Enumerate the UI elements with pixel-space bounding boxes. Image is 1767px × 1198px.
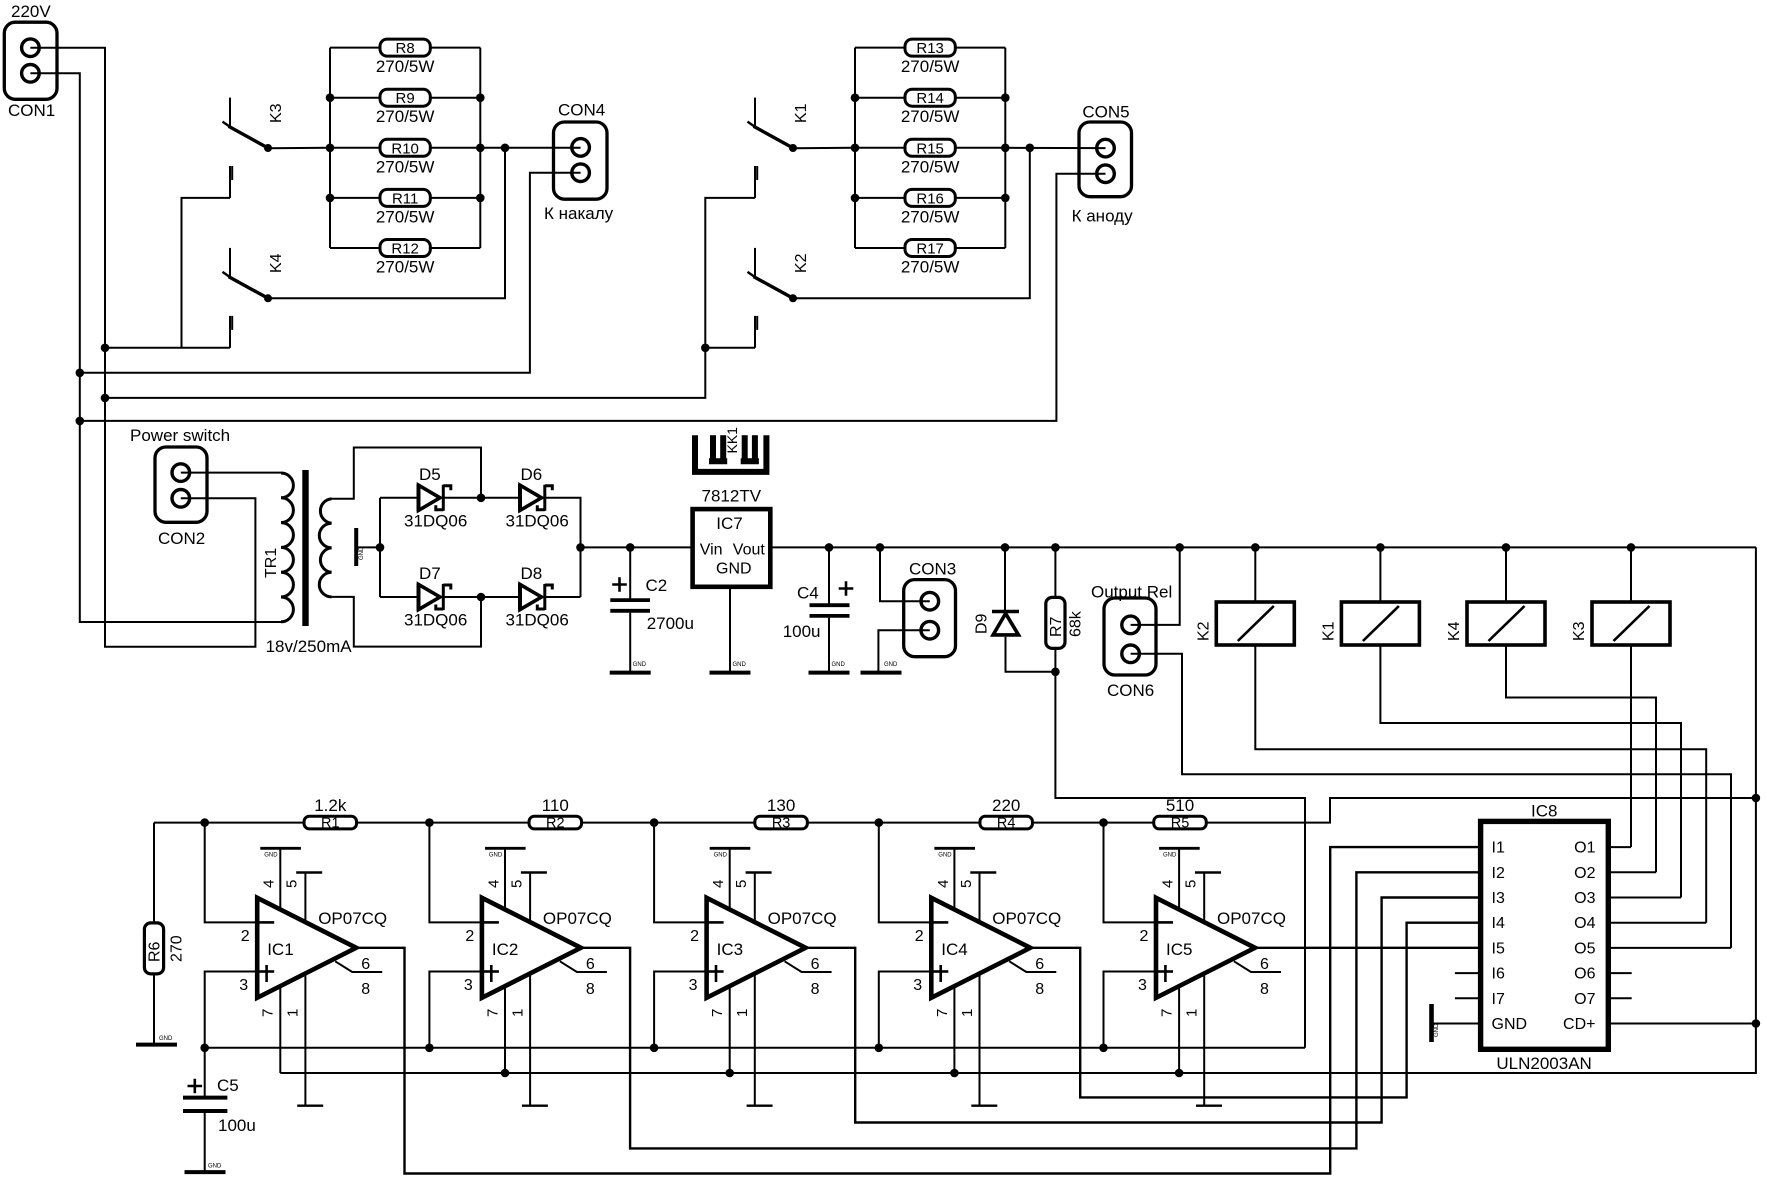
svg-text:R11: R11	[392, 190, 418, 207]
svg-text:Vin: Vin	[700, 542, 723, 559]
svg-text:GND: GND	[884, 662, 898, 668]
IC8 O5 to CON6	[1608, 947, 1731, 949]
svg-text:5: 5	[958, 880, 975, 888]
svg-text:7812TV: 7812TV	[702, 487, 762, 506]
IC3 pin1 end bar	[747, 1104, 773, 1106]
wire C5 top lead	[204, 1048, 206, 1096]
svg-text:Power switch: Power switch	[130, 426, 230, 445]
svg-text:8: 8	[361, 981, 370, 998]
junction ladder tap IC1	[200, 818, 209, 827]
resistor R8	[380, 39, 430, 56]
resistor R15	[905, 139, 955, 156]
svg-text:6: 6	[586, 956, 595, 973]
wire R7 bottom lead	[1054, 648, 1056, 671]
svg-text:7: 7	[1159, 1009, 1176, 1017]
wire IC3 output to I3	[806, 898, 1481, 1123]
diode D6 31DQ06	[520, 484, 552, 511]
resistor R3	[755, 816, 808, 829]
junction ramp bus IC5	[1099, 1044, 1108, 1053]
wire mains live to right bank	[105, 198, 755, 398]
CON6 pin 1	[1122, 616, 1140, 634]
svg-text:110: 110	[542, 796, 569, 815]
wire IC2 output to I2	[581, 872, 1481, 1148]
ground symbol at bridge minus	[354, 528, 358, 566]
svg-text:R1: R1	[321, 816, 340, 832]
junction V+ bus pin7	[725, 1069, 734, 1078]
junction relay K4 coil feed	[1502, 543, 1511, 552]
svg-text:GND: GND	[633, 662, 647, 668]
junction bridge minus node	[376, 543, 385, 552]
wire V+ bus pin7	[280, 1024, 1756, 1074]
svg-text:4: 4	[261, 880, 278, 888]
wire bridge minus node vertical	[379, 498, 381, 597]
wire left bank right bus	[479, 48, 481, 248]
wire IC4 pin3 to ramp bus	[879, 972, 930, 1048]
wire R8 right lead	[430, 47, 480, 49]
junction left bank left bus	[326, 194, 335, 203]
wire IC4 output to I4	[1030, 923, 1480, 1098]
relay coil K1	[1341, 602, 1419, 645]
wire CON3 pin1	[880, 547, 930, 601]
svg-text:R4: R4	[997, 816, 1016, 832]
svg-text:D8: D8	[521, 564, 543, 583]
IC5 pin 2 inverting tick	[1158, 921, 1173, 924]
svg-text:7: 7	[260, 1009, 277, 1017]
wire R11 right lead	[430, 197, 480, 199]
junction mains neutral / CON5 return	[76, 417, 85, 426]
IC8 O3 to relay K1	[1608, 897, 1681, 899]
junction CON3 feed	[876, 543, 885, 552]
IC8 O1 to relay K3	[1608, 846, 1631, 848]
junction K2/CON5 node	[1026, 144, 1035, 153]
wire IC4 pin4	[953, 848, 955, 910]
svg-text:OP07CQ: OP07CQ	[768, 909, 837, 928]
wire IC3 pin7	[729, 985, 731, 1073]
capacitor C2 plates	[610, 600, 650, 611]
svg-text:D7: D7	[419, 564, 441, 583]
wire IC2 pin3 to ramp bus	[429, 972, 480, 1048]
svg-text:6: 6	[361, 956, 370, 973]
svg-text:O6: O6	[1574, 966, 1595, 983]
resistor R5	[1154, 816, 1207, 829]
voltage regulator IC7 box	[693, 509, 771, 587]
relay coil K2	[1216, 602, 1294, 645]
IC4 pin1 end bar	[971, 1104, 997, 1106]
junction R7 top	[1051, 543, 1060, 552]
junction right bank right bus	[1001, 194, 1010, 203]
svg-text:220: 220	[992, 796, 1020, 815]
IC3 plus mark	[715, 965, 718, 982]
wire K3 blade to left bus	[268, 147, 330, 149]
wire ramp node to comparator bus	[1055, 672, 1305, 1048]
svg-text:2: 2	[465, 928, 474, 945]
wire R16 right lead	[955, 197, 1005, 199]
connector CON1	[4, 22, 57, 99]
svg-text:4: 4	[1160, 880, 1177, 888]
relay coil K3	[1592, 602, 1670, 645]
svg-text:270/5W: 270/5W	[376, 207, 435, 226]
svg-text:2: 2	[690, 928, 699, 945]
svg-text:D6: D6	[521, 465, 543, 484]
wire IC1 pin4	[279, 848, 281, 910]
wire R14 right lead	[955, 97, 1005, 99]
svg-text:7: 7	[484, 1009, 501, 1017]
wire C2 top lead	[629, 547, 631, 599]
svg-text:270/5W: 270/5W	[376, 57, 435, 76]
svg-text:31DQ06: 31DQ06	[404, 611, 467, 630]
K4 lower contact stub	[230, 316, 232, 348]
junction ramp bus IC4	[875, 1044, 884, 1053]
junction CON6 feed	[1175, 543, 1184, 552]
IC2 plus mark	[490, 965, 493, 982]
junction right bank right bus	[1001, 93, 1010, 102]
svg-text:GND: GND	[1163, 853, 1177, 859]
junction left bank left bus	[326, 144, 335, 153]
svg-text:OP07CQ: OP07CQ	[318, 909, 387, 928]
svg-text:68k: 68k	[1068, 610, 1085, 637]
IC4 plus mark	[939, 965, 942, 982]
junction left bank left bus	[326, 93, 335, 102]
IC3 pin 2 inverting tick	[709, 921, 724, 924]
wire relay K3 coil to O1	[1630, 645, 1632, 847]
junction R7/D9 node	[1051, 668, 1060, 677]
IC8 GND pin wire	[1433, 1023, 1481, 1025]
ground IC7	[710, 671, 751, 675]
wire D9 cathode lead	[1004, 547, 1006, 610]
IC1 plus mark	[265, 965, 268, 982]
wire K3 stub to feed riser	[182, 198, 231, 348]
resistor R1	[304, 816, 357, 829]
wire R6 bottom lead	[153, 974, 155, 1043]
resistor R7	[1046, 597, 1065, 648]
relay contact K3	[223, 98, 273, 152]
wire neutral to CON4 pin2	[80, 173, 581, 373]
junction ramp bus IC1	[200, 1044, 209, 1053]
svg-text:270/5W: 270/5W	[376, 157, 435, 176]
svg-text:4: 4	[935, 880, 952, 888]
wire K2 blade to CON5 node	[793, 148, 1030, 298]
wire mains feed to K bank	[105, 347, 230, 349]
junction bridge AC1 node	[477, 494, 486, 503]
resistor R6	[144, 923, 163, 974]
svg-text:R3: R3	[772, 816, 791, 832]
svg-text:270/5W: 270/5W	[901, 207, 960, 226]
op-amp IC2 triangle	[482, 898, 581, 998]
svg-text:GND: GND	[733, 662, 747, 668]
svg-text:IC8: IC8	[1531, 802, 1557, 821]
wire bridge output to IC7 Vin	[581, 546, 693, 548]
svg-text:GND: GND	[1434, 1023, 1440, 1037]
svg-text:5: 5	[733, 880, 750, 888]
svg-text:Vout: Vout	[733, 542, 766, 559]
svg-text:6: 6	[1035, 956, 1044, 973]
wire IC2 pin1	[529, 973, 531, 1105]
svg-text:O1: O1	[1574, 840, 1595, 857]
wire IC3 pin2 to ladder tap	[654, 823, 705, 923]
svg-text:1: 1	[959, 1009, 976, 1017]
svg-text:2: 2	[915, 928, 924, 945]
svg-text:GND: GND	[264, 853, 278, 859]
svg-text:GND: GND	[716, 561, 752, 578]
svg-text:8: 8	[586, 981, 595, 998]
wire R13 left lead	[855, 47, 905, 49]
junction K4/CON4 node	[501, 144, 510, 153]
svg-text:K4: K4	[1446, 621, 1463, 641]
wire IC1 pin2 to ladder tap	[205, 823, 256, 923]
svg-text:5: 5	[1183, 880, 1200, 888]
ground bar IC4 pin4	[934, 847, 975, 850]
ground bar IC2 pin4	[485, 847, 526, 850]
svg-text:R12: R12	[391, 241, 419, 258]
K1 lower contact stub	[755, 166, 757, 198]
wire secondary bottom to bridge AC2	[332, 597, 481, 647]
junction relay K2 coil feed	[1251, 543, 1260, 552]
svg-text:1: 1	[1184, 1009, 1201, 1017]
junction bridge AC2 node	[477, 593, 486, 602]
svg-text:8: 8	[1260, 981, 1269, 998]
svg-text:GND: GND	[714, 853, 728, 859]
svg-text:R13: R13	[916, 40, 944, 57]
svg-text:2700u: 2700u	[647, 614, 694, 633]
wire ladder segment after R2	[582, 822, 755, 824]
relay coil K4	[1467, 602, 1545, 645]
wire C2 bottom lead	[629, 613, 631, 671]
wire ladder segment after R3	[807, 822, 980, 824]
svg-text:R15: R15	[916, 140, 944, 157]
svg-text:5: 5	[508, 880, 525, 888]
wire K1 blade to left bus	[793, 147, 855, 149]
wire CON3 pin2 to ground	[878, 630, 929, 671]
svg-text:270/5W: 270/5W	[901, 57, 960, 76]
svg-text:8: 8	[811, 981, 820, 998]
IC8 pin I7 stub	[1455, 997, 1481, 999]
IC5 pin1 end bar	[1196, 1104, 1222, 1106]
CON2 pin 2	[172, 490, 190, 508]
IC3 pin5 end bar	[746, 871, 772, 873]
IC4 pin8 stub	[1009, 961, 1056, 972]
wire K4 blade to CON4 node	[268, 148, 505, 298]
svg-text:5: 5	[284, 880, 301, 888]
wire bank to CON5 pin1	[1005, 147, 1105, 149]
connector CON4	[554, 122, 608, 199]
ground bar IC5 pin4	[1159, 847, 1200, 850]
wire neutral to CON5 pin2	[80, 174, 1106, 421]
svg-text:270/5W: 270/5W	[901, 157, 960, 176]
svg-text:I6: I6	[1492, 966, 1505, 983]
wire IC1 pin1	[304, 973, 306, 1105]
wire IC4 pin5	[979, 873, 981, 923]
connector CON3	[904, 580, 956, 657]
svg-text:K1: K1	[1320, 621, 1337, 641]
wire IC3 pin1	[754, 973, 756, 1105]
svg-text:I1: I1	[1492, 840, 1505, 857]
IC4 pin5 end bar	[970, 871, 996, 873]
IC8 O2 to relay K4	[1608, 871, 1656, 873]
svg-text:IC1: IC1	[267, 940, 293, 959]
IC5 plus mark	[1164, 965, 1167, 982]
wire R13 right lead	[955, 47, 1005, 49]
wire R5 to +12V	[1206, 798, 1756, 823]
svg-text:4: 4	[710, 880, 727, 888]
wire R14 left lead	[855, 97, 905, 99]
svg-text:100u: 100u	[783, 622, 821, 641]
svg-text:IC7: IC7	[716, 514, 742, 533]
ground C5	[185, 1170, 226, 1174]
wire ramp bus pin3	[205, 1047, 1305, 1049]
IC1 pin 2 inverting tick	[259, 921, 274, 924]
svg-text:C2: C2	[646, 576, 668, 595]
svg-text:3: 3	[1138, 977, 1147, 994]
IC2 pin 3 tick	[484, 970, 499, 973]
IC8 pin I6 stub	[1455, 972, 1481, 974]
IC8 O4 to relay K2	[1608, 922, 1706, 924]
wire right bank feed to K2	[705, 347, 755, 349]
svg-text:CON2: CON2	[158, 529, 205, 548]
ground bar IC3 pin4	[710, 847, 751, 850]
wire AC2 to D8 anode	[481, 596, 520, 598]
diode D9	[992, 612, 1019, 635]
svg-text:31DQ06: 31DQ06	[506, 512, 569, 531]
svg-text:D9: D9	[974, 613, 991, 634]
diode D7 31DQ06	[419, 584, 451, 611]
wire relay K2 coil top	[1254, 547, 1256, 602]
CON1 pin 1	[22, 39, 40, 57]
IC2 pin5 end bar	[521, 871, 547, 873]
wire IC3 pin5	[754, 873, 756, 923]
junction C2 top	[626, 543, 635, 552]
IC1 pin5 end bar	[296, 871, 322, 873]
op-amp IC3 triangle	[707, 898, 806, 998]
svg-text:GND: GND	[489, 853, 503, 859]
svg-text:R14: R14	[916, 90, 944, 107]
ground C4	[809, 671, 850, 675]
svg-text:1.2k: 1.2k	[314, 796, 347, 815]
svg-text:18v/250mA: 18v/250mA	[266, 637, 353, 656]
svg-text:KK1: KK1	[724, 427, 740, 454]
ground bar IC1 pin4	[260, 847, 301, 850]
junction ladder tap IC2	[425, 818, 434, 827]
resistor R17	[905, 240, 955, 257]
wire R10 left lead	[330, 147, 380, 149]
wire C5 bottom lead	[204, 1113, 206, 1171]
wire D7 cathode to AC2 node	[443, 596, 481, 598]
svg-text:100u: 100u	[218, 1116, 256, 1135]
svg-text:K2: K2	[793, 253, 810, 273]
junction right bank left bus	[851, 93, 860, 102]
junction left bank right bus	[476, 144, 485, 153]
svg-text:CON1: CON1	[8, 101, 55, 120]
wire IC1 pin3 to ramp bus	[205, 972, 256, 1048]
junction right bank feed	[701, 344, 710, 353]
CON3 pin 1	[921, 592, 939, 610]
svg-text:3: 3	[913, 977, 922, 994]
svg-text:K4: K4	[268, 253, 285, 273]
svg-text:R17: R17	[916, 241, 944, 258]
svg-text:2: 2	[241, 928, 250, 945]
svg-text:R16: R16	[916, 190, 944, 207]
wire R17 right lead	[955, 247, 1005, 249]
relay contact K4	[223, 248, 273, 302]
svg-text:1: 1	[734, 1009, 751, 1017]
relay contact K1	[748, 98, 798, 152]
op-amp IC5 triangle	[1156, 898, 1255, 998]
svg-text:6: 6	[811, 956, 820, 973]
wire relay K3 coil top	[1630, 547, 1632, 602]
svg-text:6: 6	[1260, 956, 1269, 973]
svg-text:CON3: CON3	[909, 560, 956, 579]
wire R15 left lead	[855, 147, 905, 149]
wire bank to CON4 pin1	[480, 147, 580, 149]
transformer TR1 secondary winding	[319, 499, 331, 597]
wire relay K1 coil to ULN output	[1380, 645, 1681, 898]
wire D5 anode lead	[380, 497, 419, 499]
wire bridge minus to ground	[358, 546, 380, 548]
wire right bank right bus	[1004, 48, 1006, 248]
IC8 pin O7 stub	[1608, 997, 1631, 999]
wire ladder segment after R1	[357, 822, 530, 824]
wire R9 right lead	[430, 97, 480, 99]
svg-text:CD+: CD+	[1563, 1016, 1595, 1033]
svg-text:TR1: TR1	[263, 548, 280, 578]
IC4 pin 3 tick	[933, 970, 948, 973]
junction ladder tap IC5	[1099, 818, 1108, 827]
svg-text:I3: I3	[1492, 890, 1505, 907]
wire CON6 pin1 to +12V	[1131, 547, 1180, 625]
svg-text:O3: O3	[1574, 890, 1595, 907]
svg-text:CON6: CON6	[1107, 681, 1154, 700]
wire IC5 pin2 to ladder tap	[1104, 823, 1155, 923]
wire IC7 GND pin	[729, 587, 731, 671]
wire +12V rail right drop to CD+	[1755, 547, 1757, 1023]
IC5 pin8 stub	[1234, 961, 1281, 972]
svg-text:1: 1	[285, 1009, 302, 1017]
svg-text:R10: R10	[391, 140, 419, 157]
wire IC5 output to I5	[1255, 947, 1481, 949]
svg-text:I4: I4	[1492, 915, 1505, 932]
svg-text:O2: O2	[1574, 865, 1595, 882]
junction D9 top	[1001, 543, 1010, 552]
svg-text:O7: O7	[1574, 991, 1595, 1008]
svg-text:270/5W: 270/5W	[376, 258, 435, 277]
wire CON1 pin2 to transformer primary bottom	[30, 73, 281, 622]
wire IC1 pin7	[279, 985, 281, 1073]
CON5 pin 1	[1097, 139, 1115, 157]
CON4 pin 1	[572, 139, 590, 157]
svg-text:3: 3	[239, 977, 248, 994]
junction mains live / right bank feed	[101, 394, 110, 403]
wire IC4 pin2 to ladder tap	[879, 823, 930, 923]
svg-text:510: 510	[1166, 796, 1194, 815]
wire R12 left lead	[330, 247, 380, 249]
svg-text:K3: K3	[268, 103, 285, 123]
IC8 pin O6 stub	[1608, 972, 1631, 974]
svg-text:130: 130	[767, 796, 795, 815]
wire IC5 pin4	[1178, 848, 1180, 910]
svg-text:OP07CQ: OP07CQ	[992, 909, 1061, 928]
CON5 pin 2	[1097, 165, 1115, 183]
wire IC5 pin5	[1203, 873, 1205, 923]
wire +12V rail	[770, 546, 1756, 548]
IC1 pin1 end bar	[297, 1104, 323, 1106]
wire IC1 pin5	[304, 873, 306, 923]
svg-text:7: 7	[934, 1009, 951, 1017]
svg-text:R7: R7	[1048, 616, 1065, 637]
wire CON1 pin1 to mains live bus	[30, 48, 255, 647]
junction right bank left bus	[851, 194, 860, 203]
ground C2	[610, 671, 651, 675]
wire IC3 pin4	[729, 848, 731, 910]
wire IC5 pin7	[1178, 985, 1180, 1073]
